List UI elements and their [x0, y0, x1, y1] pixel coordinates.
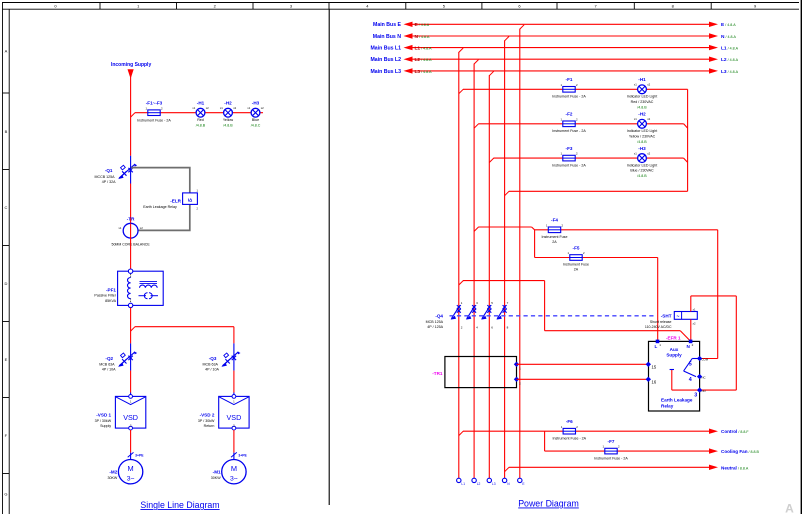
- wire TR1 to relay terminal 15: [517, 363, 649, 365]
- svg-text:Main Bus E: Main Bus E: [373, 22, 401, 28]
- svg-text:Aux: Aux: [670, 347, 679, 352]
- wire through TR down to PF1: [130, 223, 132, 269]
- svg-text:G: G: [4, 491, 7, 496]
- svg-text:B: B: [5, 129, 8, 134]
- wire -Q2 to VSD 1: [130, 371, 132, 393]
- svg-text:M: M: [128, 464, 134, 473]
- svg-text:Red: Red: [197, 118, 204, 122]
- svg-text:-Q1: -Q1: [105, 168, 113, 173]
- svg-text:L1: L1: [461, 482, 465, 486]
- svg-text:Blue: Blue: [252, 118, 259, 122]
- svg-text:3+PE: 3+PE: [135, 454, 144, 458]
- svg-text:MCB 125A: MCB 125A: [426, 320, 444, 324]
- svg-text:x2: x2: [647, 117, 650, 121]
- lamp -H1: [627, 77, 658, 109]
- terminal L1 bottom: [457, 478, 466, 486]
- svg-text:Single Line Diagram: Single Line Diagram: [140, 500, 219, 510]
- svg-text:-TR: -TR: [127, 216, 135, 221]
- fuse -F1: [552, 77, 586, 98]
- svg-text:Return: Return: [204, 424, 215, 428]
- label Incoming Supply: [111, 62, 151, 68]
- svg-text:-F4: -F4: [551, 218, 558, 223]
- svg-text:Indicator LED Light: Indicator LED Light: [627, 129, 658, 133]
- wire branch to VSD2: [131, 327, 234, 344]
- svg-text:MCB 63A: MCB 63A: [99, 362, 115, 366]
- wire F4 row: [474, 227, 718, 359]
- svg-text:-H1: -H1: [638, 77, 646, 82]
- drive -VSD 1: [95, 395, 146, 431]
- svg-text:x2: x2: [206, 106, 209, 110]
- node junction bottom of PF1: [128, 303, 132, 307]
- svg-text:COM: COM: [702, 357, 709, 361]
- wire vertical feeder E: [520, 25, 524, 479]
- wire blue segment at -Q2: [130, 343, 132, 370]
- wire row -F1/-H1: [459, 89, 688, 93]
- svg-text:Yellow / 230VAC: Yellow / 230VAC: [629, 134, 656, 138]
- terminal N bottom: [502, 478, 510, 486]
- svg-text:Control / 8.8.F: Control / 8.8.F: [721, 429, 749, 434]
- svg-text:-H1: -H1: [197, 101, 205, 106]
- lamp -H3: [627, 146, 658, 178]
- svg-text:-VSD 2: -VSD 2: [200, 413, 215, 418]
- incoming supply arrow: [128, 69, 134, 79]
- svg-text:-TR1: -TR1: [432, 371, 443, 376]
- svg-text:Yellow: Yellow: [223, 118, 234, 122]
- svg-text:VSD: VSD: [123, 413, 138, 422]
- wire lamp collector vertical: [687, 89, 689, 191]
- bus Main Bus L2: [370, 57, 738, 64]
- svg-text:Shunt release: Shunt release: [650, 320, 672, 324]
- svg-text:4P / 32A: 4P / 32A: [102, 180, 116, 184]
- svg-text:-F2: -F2: [566, 112, 573, 117]
- wire -Q3 to VSD 2: [233, 371, 235, 393]
- svg-text:4P / 10A: 4P / 10A: [205, 368, 219, 372]
- svg-text:L3: L3: [492, 482, 496, 486]
- svg-text:x1: x1: [634, 83, 637, 87]
- cable marker 3+PE at -M1: [231, 452, 248, 457]
- wire row -F2/-H2: [474, 124, 687, 128]
- svg-text:5: 5: [689, 362, 692, 368]
- svg-text:-F6: -F6: [566, 419, 573, 424]
- wire vertical feeder L2: [474, 60, 478, 479]
- svg-text:Earth Leakage Relay: Earth Leakage Relay: [143, 205, 177, 209]
- svg-text:Blue / 230VAC: Blue / 230VAC: [630, 169, 654, 173]
- svg-text:A: A: [785, 502, 794, 514]
- svg-text:Passive Filter: Passive Filter: [94, 294, 116, 298]
- svg-text:x2: x2: [647, 83, 650, 87]
- svg-text:NC: NC: [702, 375, 706, 379]
- svg-text:-F1~-F3: -F1~-F3: [146, 101, 163, 106]
- center divider between diagrams: [328, 9, 330, 505]
- svg-text:Incoming Supply: Incoming Supply: [111, 62, 151, 68]
- wire neutral return row: [505, 191, 688, 195]
- svg-text:Neutral / 8.8.A: Neutral / 8.8.A: [721, 465, 749, 470]
- svg-text:30KW: 30KW: [211, 476, 221, 480]
- svg-text:3+PE: 3+PE: [238, 454, 247, 458]
- svg-text:IΔ: IΔ: [188, 197, 193, 202]
- svg-text:-H2: -H2: [224, 101, 232, 106]
- svg-text:4P / 10A: 4P / 10A: [102, 368, 116, 372]
- svg-text:Instrument Fuse - 2A: Instrument Fuse - 2A: [552, 95, 586, 99]
- svg-text:x1: x1: [220, 106, 223, 110]
- svg-text:E: E: [5, 357, 8, 362]
- breaker -Q2: [99, 352, 137, 372]
- fuse -F5: [563, 245, 589, 271]
- motor -M2: [108, 460, 143, 484]
- svg-text:Indicator LED Light: Indicator LED Light: [627, 95, 658, 99]
- svg-text:-H3: -H3: [252, 101, 260, 106]
- wire vertical feeder L3: [489, 71, 493, 478]
- node junction top of PF1: [128, 269, 132, 273]
- svg-text:/4.8.B: /4.8.B: [223, 123, 233, 127]
- svg-text:Main Bus L3: Main Bus L3: [370, 69, 401, 75]
- svg-text:2A: 2A: [574, 268, 579, 272]
- svg-text:-F3: -F3: [566, 146, 573, 151]
- svg-text:Main Bus L2: Main Bus L2: [370, 57, 401, 63]
- svg-text:VSD: VSD: [227, 413, 242, 422]
- svg-text:-F1: -F1: [566, 77, 573, 82]
- svg-text:~: ~: [677, 314, 680, 320]
- svg-text:L: L: [655, 344, 658, 349]
- svg-text:/4.8.B: /4.8.B: [637, 174, 647, 178]
- svg-text:3~: 3~: [127, 476, 135, 483]
- svg-text:M: M: [231, 464, 237, 473]
- wire blue segment at -Q3: [233, 343, 235, 370]
- svg-text:L2: L2: [477, 482, 481, 486]
- wire lamp branch horizontal: [131, 113, 263, 117]
- wire Q1 to TR: [130, 184, 132, 224]
- coil SHT shunt release: [645, 307, 697, 329]
- terminal E bottom: [518, 478, 526, 486]
- svg-text:Instrument Fuse - 2A: Instrument Fuse - 2A: [137, 119, 171, 123]
- svg-text:-PF1: -PF1: [106, 287, 116, 292]
- svg-text:-F7: -F7: [608, 439, 615, 444]
- svg-text:Power Diagram: Power Diagram: [518, 499, 579, 509]
- terminal L3 bottom: [487, 478, 496, 486]
- svg-text:-Q2: -Q2: [105, 356, 113, 361]
- svg-text:x2: x2: [140, 226, 143, 230]
- fuse -F7: [594, 439, 628, 460]
- svg-text:x2: x2: [647, 152, 650, 156]
- bus Main Bus L1: [370, 45, 738, 52]
- svg-text:4P / 125A: 4P / 125A: [427, 325, 443, 329]
- svg-text:MCCB 125A: MCCB 125A: [95, 175, 116, 179]
- drive -VSD 2: [198, 395, 249, 431]
- svg-text:x1: x1: [247, 106, 250, 110]
- terminal dots EFR1: [646, 340, 703, 393]
- svg-text:x1: x1: [634, 152, 637, 156]
- svg-text:x1: x1: [634, 117, 637, 121]
- svg-text:Cooling Fan / 8.8.B: Cooling Fan / 8.8.B: [721, 449, 760, 454]
- wire VSD 2 to motor: [233, 430, 235, 453]
- svg-text:Instrument Fuse - 2A: Instrument Fuse - 2A: [552, 129, 586, 133]
- wire vertical feeder N: [505, 36, 509, 478]
- relay ELR: [143, 189, 198, 211]
- motor -M1: [211, 460, 246, 484]
- svg-text:Instrument Fuse - 2A: Instrument Fuse - 2A: [552, 163, 586, 167]
- wire F5 row: [535, 230, 658, 342]
- svg-text:3: 3: [694, 393, 697, 399]
- svg-text:A: A: [5, 49, 8, 54]
- svg-text:2A: 2A: [552, 240, 557, 244]
- fuse -F6: [553, 419, 587, 440]
- svg-text:-EFR 1: -EFR 1: [666, 335, 681, 340]
- left ruler ticks and letters: [3, 49, 10, 497]
- svg-text:-Q3: -Q3: [209, 356, 217, 361]
- wire shunt trip circuit: [691, 296, 737, 390]
- relay EFR 1 Earth Leakage Relay: [649, 335, 700, 411]
- svg-text:MCB 63A: MCB 63A: [203, 362, 219, 366]
- svg-text:-SHT: -SHT: [661, 314, 672, 319]
- svg-text:x1: x1: [119, 226, 122, 230]
- svg-text:x1: x1: [192, 106, 195, 110]
- svg-text:-Q4: -Q4: [435, 314, 443, 319]
- lamp -H2: [627, 112, 658, 144]
- svg-text:110-240V AC/DC: 110-240V AC/DC: [645, 325, 672, 329]
- svg-text:3~: 3~: [230, 476, 238, 483]
- svg-text:/4.8.B: /4.8.B: [196, 123, 206, 127]
- bus Main Bus L3: [370, 68, 738, 75]
- svg-text:x2: x2: [693, 322, 696, 326]
- wire row -F3/-H3: [489, 158, 687, 162]
- bus Main Bus N: [373, 33, 737, 40]
- svg-text:/4.8.C: /4.8.C: [251, 123, 261, 127]
- svg-text:Red / 230VAC: Red / 230VAC: [631, 100, 654, 104]
- wire vertical feeder L1: [459, 48, 463, 478]
- svg-text:85KVA: 85KVA: [105, 299, 117, 303]
- svg-text:Relay: Relay: [661, 404, 674, 409]
- svg-text:-VSD 1: -VSD 1: [96, 413, 111, 418]
- wire VSD 1 to motor: [130, 430, 132, 453]
- lamp -H1: [192, 101, 209, 128]
- svg-text:15: 15: [652, 364, 657, 369]
- wire Q4 trip dashed link: [450, 315, 656, 317]
- svg-text:D: D: [4, 281, 7, 286]
- svg-text:30KW: 30KW: [108, 476, 118, 480]
- wire aux supply tap from L1: [459, 281, 691, 342]
- svg-text:-M2: -M2: [109, 469, 117, 474]
- svg-text:C: C: [4, 205, 7, 210]
- wire PF1 to branch: [130, 308, 132, 344]
- svg-text:-M1: -M1: [213, 469, 221, 474]
- svg-text:3P / 30kW: 3P / 30kW: [95, 419, 112, 423]
- svg-text:-H2: -H2: [638, 112, 646, 117]
- transformer TR1: [432, 357, 521, 388]
- svg-text:Indicator LED Light: Indicator LED Light: [627, 163, 658, 167]
- svg-text:-ELR: -ELR: [170, 199, 181, 204]
- fuse -F1~-F3: [137, 101, 171, 123]
- wire ELR gray loop: [131, 168, 190, 231]
- svg-text:x1: x1: [693, 307, 696, 311]
- wire Control row with fuse F6: [459, 429, 718, 436]
- svg-text:x2: x2: [233, 106, 236, 110]
- transformer TR core balance CT: [112, 216, 151, 246]
- filter PF1: [94, 271, 163, 305]
- bus Main Bus E: [373, 22, 736, 29]
- svg-text:Supply: Supply: [666, 352, 682, 357]
- svg-text:Main Bus N: Main Bus N: [373, 34, 401, 40]
- top ruler ticks and numbers: [54, 3, 757, 10]
- breaker -Q3: [203, 352, 241, 372]
- wire TR1 to relay terminal 16: [517, 378, 649, 380]
- wire blue segment at Q1: [130, 156, 132, 184]
- wire Neutral row: [505, 465, 718, 472]
- svg-text:x2: x2: [261, 106, 264, 110]
- fuse -F2: [552, 112, 586, 133]
- svg-text:Instrument Fuse: Instrument Fuse: [542, 235, 568, 239]
- svg-text:Main Bus L1: Main Bus L1: [370, 46, 401, 52]
- breaker Q4: [426, 301, 509, 330]
- contact changeover inside EFR1: [670, 357, 709, 398]
- lamp -H3: [247, 101, 264, 128]
- svg-text:Instrument Fuse - 2A: Instrument Fuse - 2A: [553, 436, 587, 440]
- svg-text:4: 4: [689, 377, 692, 383]
- wire incoming supply vertical: [130, 71, 132, 156]
- svg-text:Earth Leakage: Earth Leakage: [661, 397, 693, 402]
- fuse -F4: [542, 218, 568, 244]
- fuse -F3: [552, 146, 586, 167]
- svg-text:Supply: Supply: [100, 424, 111, 428]
- svg-text:3P / 30kW: 3P / 30kW: [198, 419, 215, 423]
- lamp -H2: [220, 101, 237, 128]
- svg-text:-F5: -F5: [573, 245, 580, 250]
- svg-text:-H3: -H3: [638, 146, 646, 151]
- svg-text:Instrument Fuse - 2A: Instrument Fuse - 2A: [594, 456, 628, 460]
- svg-text:Instrument Fuse: Instrument Fuse: [563, 263, 589, 267]
- svg-text:/4.8.B: /4.8.B: [637, 105, 647, 109]
- svg-text:16: 16: [652, 380, 657, 385]
- svg-text:/4.8.B: /4.8.B: [637, 140, 647, 144]
- wire Cooling Fan row with fuse F7: [545, 431, 718, 454]
- cable marker 3+PE at -M2: [128, 452, 145, 457]
- breaker Q1: [95, 164, 138, 184]
- terminal L2 bottom: [472, 478, 481, 486]
